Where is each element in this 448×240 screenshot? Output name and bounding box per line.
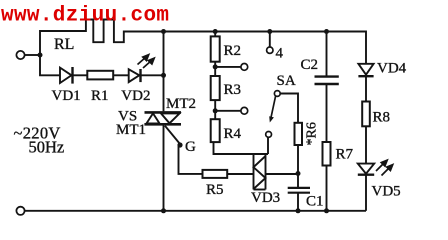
svg-text:R8: R8 bbox=[373, 110, 391, 126]
svg-text:R4: R4 bbox=[224, 126, 242, 142]
svg-text:VD3: VD3 bbox=[251, 190, 280, 206]
svg-text:50Hz: 50Hz bbox=[29, 138, 65, 157]
svg-text:R2: R2 bbox=[224, 43, 242, 59]
svg-text:www.dziuu.com: www.dziuu.com bbox=[1, 5, 169, 28]
svg-text:R5: R5 bbox=[206, 182, 224, 198]
svg-text:MT1: MT1 bbox=[116, 122, 146, 138]
svg-text:C1: C1 bbox=[306, 194, 324, 210]
svg-text:VD5: VD5 bbox=[372, 184, 401, 200]
svg-text:SA: SA bbox=[277, 73, 296, 89]
svg-text:VD1: VD1 bbox=[52, 88, 81, 104]
svg-text:*R6: *R6 bbox=[305, 122, 320, 145]
svg-text:VD4: VD4 bbox=[377, 61, 407, 77]
svg-text:4: 4 bbox=[276, 46, 284, 62]
svg-text:R7: R7 bbox=[336, 147, 354, 163]
svg-text:R3: R3 bbox=[224, 82, 242, 98]
svg-text:MT2: MT2 bbox=[166, 96, 196, 112]
svg-text:RL: RL bbox=[54, 36, 74, 53]
svg-text:G: G bbox=[185, 139, 196, 155]
svg-text:VD2: VD2 bbox=[121, 88, 150, 104]
svg-text:R1: R1 bbox=[91, 88, 109, 104]
svg-text:C2: C2 bbox=[301, 57, 319, 73]
